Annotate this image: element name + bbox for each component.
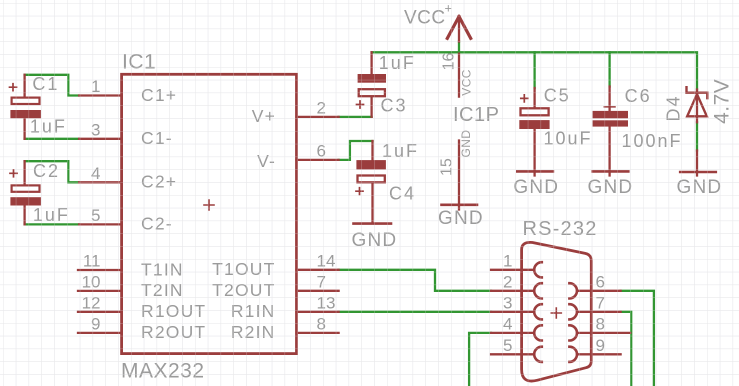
wire C6 branch bbox=[608, 52, 610, 86]
capacitor C3 bbox=[357, 52, 387, 117]
IC1 pin 7 T2OUT bbox=[212, 272, 338, 300]
capacitor C2 labels bbox=[33, 161, 70, 225]
IC1P power gate pin 15 GND bbox=[439, 130, 474, 210]
diode D4 labels bbox=[663, 79, 733, 124]
IC IC1 MAX232 box bbox=[122, 74, 297, 353]
connector pin 4 bbox=[491, 314, 542, 340]
capacitor C2 bbox=[10, 161, 41, 224]
capacitor C1 bbox=[10, 75, 41, 139]
capacitor C4 bbox=[356, 141, 386, 223]
wire DB9 pin 7 / pin 8 tie down bbox=[621, 312, 632, 386]
wire DB9 pin 4 down bbox=[469, 333, 491, 386]
wire C1 top to pin 1 bbox=[25, 75, 80, 96]
IC1 pin 6 V- bbox=[257, 141, 339, 171]
IC1 pin 2 V+ bbox=[252, 98, 339, 126]
connector X1 RS-232 shell bbox=[522, 242, 592, 381]
IC1 pin 9 R2OUT bbox=[78, 314, 206, 342]
IC1 pin 5 C2- bbox=[79, 206, 173, 234]
wire T1OUT to DB9 pin 2 bbox=[339, 270, 491, 291]
connector pin 8 bbox=[569, 314, 630, 340]
wire R1IN to DB9 pin 3 bbox=[339, 311, 491, 313]
wire pin 6 to C4 bbox=[339, 141, 373, 160]
connector pin 1 bbox=[491, 251, 542, 277]
wire C5 branch bbox=[533, 52, 535, 88]
wire pin 2 to C3 bbox=[339, 116, 372, 118]
wire VCC rail net bbox=[372, 52, 697, 89]
connector pin 6 bbox=[569, 272, 620, 298]
diode D4 zener bbox=[687, 87, 708, 175]
wire C2 bottom to pin 5 bbox=[25, 223, 80, 225]
ground below IC1P pin 15 bbox=[438, 205, 484, 229]
IC IC1 name labels bbox=[121, 51, 205, 383]
IC1 pin 1 C1+ bbox=[79, 77, 177, 105]
wire D4 lower segment bbox=[696, 122, 698, 150]
IC1 pin 11 T1IN bbox=[78, 252, 184, 280]
IC1 pin 12 R1OUT bbox=[78, 293, 206, 321]
supply VCC arrow bbox=[447, 17, 470, 42]
ground below D4 bbox=[677, 172, 723, 198]
connector pin 3 bbox=[491, 293, 542, 319]
IC1 pin 8 R2IN bbox=[231, 314, 339, 342]
IC1 pin 13 R1IN bbox=[231, 293, 339, 321]
capacitor C6 labels bbox=[622, 86, 683, 151]
IC1 pin 4 C2+ bbox=[79, 164, 177, 192]
wire VCC stem to arrow bbox=[458, 42, 460, 53]
connector pin 9 bbox=[569, 336, 620, 362]
IC1P power gate pin 16 VCC bbox=[441, 53, 474, 97]
IC1 pin 14 T1OUT bbox=[212, 251, 338, 279]
capacitor C3 labels bbox=[379, 53, 416, 116]
connector pin 7 bbox=[569, 293, 620, 319]
capacitor C5 labels bbox=[544, 85, 593, 148]
ground below C6 bbox=[588, 171, 634, 198]
IC1 pin 10 T2IN bbox=[78, 272, 184, 300]
capacitor C1 labels bbox=[30, 74, 67, 137]
supply VCC label bbox=[404, 1, 452, 29]
wire DB9 pin 6 down bbox=[621, 291, 654, 386]
wire C1 bottom to pin 3 bbox=[25, 138, 80, 140]
ground below C4 bbox=[352, 224, 398, 251]
connector pin 2 bbox=[491, 272, 542, 298]
capacitor C4 labels bbox=[382, 141, 419, 204]
wire C2 top to pin 4 bbox=[25, 161, 80, 182]
capacitor C6 bbox=[593, 87, 628, 176]
ground below C5 bbox=[513, 171, 559, 198]
capacitor C5 bbox=[519, 88, 549, 176]
connector pin 5 bbox=[491, 336, 542, 362]
IC1 pin 3 C1- bbox=[79, 120, 173, 148]
